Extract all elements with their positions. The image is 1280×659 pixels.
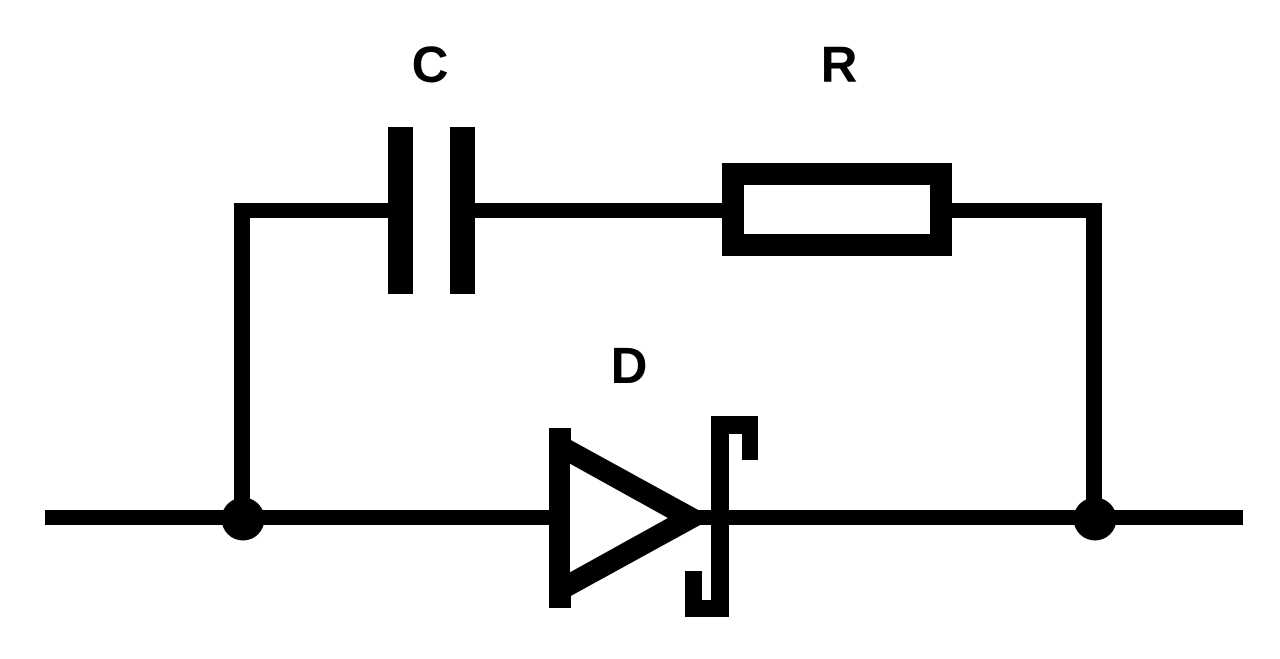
svg-text:R: R [821, 36, 858, 93]
svg-text:D: D [611, 337, 648, 394]
svg-text:C: C [412, 36, 449, 93]
